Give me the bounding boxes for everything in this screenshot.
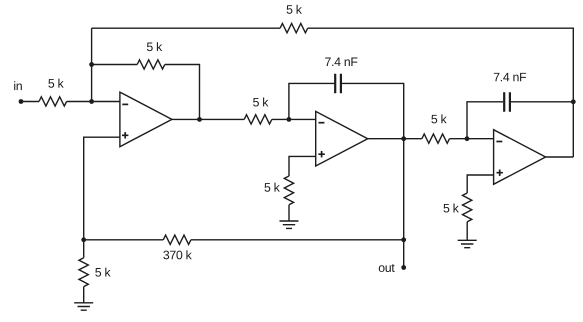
wire: left vertical from top rail to summing junction <box>91 28 93 101</box>
op-amp U3 <box>494 130 546 185</box>
node: summing junction at U1 minus input <box>89 99 94 104</box>
node: U1 output junction <box>197 117 202 122</box>
resistor R1 5k (input) <box>39 97 67 106</box>
resistor R3 5k (U1 out to U2 in) <box>244 115 272 124</box>
label 7.4 nF (C1) <box>325 58 357 66</box>
label in <box>14 81 22 90</box>
label 5 k (R1) <box>48 79 63 88</box>
label 5 k (R2) <box>147 42 162 51</box>
wire: R1 to U1 inverting input <box>67 101 120 103</box>
wire: R8 to output vertical <box>191 239 404 241</box>
label 5 k (R6) <box>431 114 446 123</box>
wire: U3 output to right vertical <box>546 156 574 158</box>
U3 minus sign <box>496 141 502 143</box>
wire: U1 feedback left segment <box>92 64 138 66</box>
U2 minus sign <box>319 122 325 124</box>
wire: C1 right leg down to U2 output junction <box>342 83 404 138</box>
wire: R7 to ground <box>466 222 468 241</box>
wire: R6 to U3 inverting input <box>450 138 494 140</box>
node: C2 / top-rail junction <box>571 99 576 104</box>
wire: C2 left leg up from U3 minus junction <box>467 102 503 139</box>
label out <box>379 264 395 272</box>
resistor R9 5k (bottom-left junction to ground) <box>79 258 88 287</box>
resistor R2 5k (U1 local feedback) <box>137 60 165 69</box>
label 5 k (R3) <box>253 97 268 106</box>
wire: U2 output to R6 <box>368 138 422 140</box>
U1 minus sign <box>122 103 128 105</box>
wire: bottom feedback rail left segment <box>84 239 164 241</box>
wire: top rail right segment, drop to U3 output net <box>308 28 574 157</box>
resistor R8 370k (bottom feedback) <box>163 235 191 244</box>
wire: U3 non-inverting input down to R7 <box>467 175 493 193</box>
resistor R4 5k (top global feedback) <box>280 24 308 33</box>
resistor R7 5k (U3 + input to ground) <box>463 193 472 222</box>
node in (input terminal dot) <box>19 99 24 104</box>
capacitor C1 7.4 nF plates <box>335 74 341 93</box>
label 5 k (R7) <box>443 203 458 212</box>
wire: C2 right leg to right vertical <box>511 101 573 103</box>
node: bottom rail / output vertical junction <box>401 237 406 242</box>
op-amp U2 <box>316 111 368 166</box>
wire: R3 to U2 inverting input <box>272 118 316 120</box>
node out (output terminal dot) <box>401 265 406 270</box>
wire: top rail left segment <box>92 27 281 29</box>
wire: R5 to ground <box>288 205 290 221</box>
ground (below R7) <box>458 240 477 247</box>
label 5 k (R4) <box>287 5 302 14</box>
capacitor C2 7.4 nF plates <box>504 92 510 112</box>
wire: input node to R1 <box>21 101 39 103</box>
node: feedback tap junction <box>89 62 94 67</box>
resistor R5 5k (U2 + input to ground) <box>284 176 293 205</box>
node: U2 output junction <box>401 136 406 141</box>
label 5 k (R9) <box>95 268 110 277</box>
resistor R6 5k (U2 out to U3 in) <box>422 134 450 143</box>
ground (bottom left) <box>74 303 93 310</box>
wire: C1 left leg up from U2 minus junction <box>289 83 334 119</box>
node: U3 minus junction <box>465 136 470 141</box>
op-amp U1 <box>120 92 172 147</box>
wire: U1 non-inverting input to bottom-left vertical <box>84 137 120 240</box>
wire: U1 output to R3 <box>172 118 244 120</box>
wire: output vertical down to out terminal <box>403 139 405 268</box>
U1 plus sign <box>122 132 128 138</box>
wire: junction to R9, R9 to ground <box>83 240 85 303</box>
node: bottom-left junction <box>81 237 86 242</box>
wire: U1 feedback right segment down to U1 output <box>165 65 200 120</box>
label 370 k (R8) <box>163 250 191 259</box>
U3 plus sign <box>497 170 503 176</box>
label 5 k (R5) <box>264 183 279 192</box>
U2 plus sign <box>318 151 324 157</box>
ground (below R5) <box>280 221 299 228</box>
wire: U2 non-inverting input down to R5 <box>289 156 316 176</box>
label 7.4 nF (C2) <box>494 73 526 81</box>
node: U2 minus junction <box>287 117 292 122</box>
